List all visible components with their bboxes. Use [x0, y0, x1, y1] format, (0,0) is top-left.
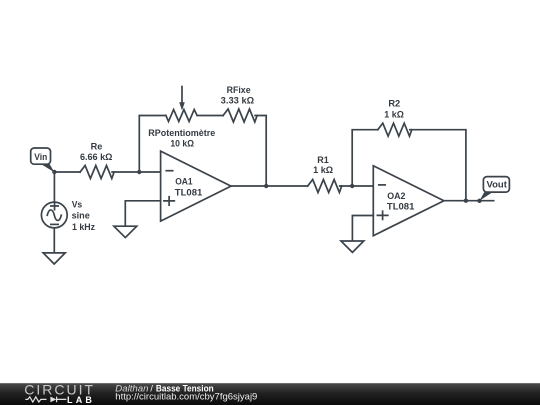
voltage source Vs — [41, 200, 95, 233]
wire R2 feedback loop — [352, 130, 378, 186]
svg-text:OA2: OA2 — [387, 191, 405, 202]
wire Vs to ground — [53, 228, 55, 253]
wire Vin node down to Vs — [53, 172, 55, 202]
wire OA2 non-inverting input to ground — [352, 216, 373, 242]
svg-text:1 kΩ: 1 kΩ — [313, 165, 333, 176]
wire OA1 non-inverting input to ground — [125, 201, 160, 226]
resistor R2 — [378, 99, 412, 137]
wire R1 to OA2 inverting input — [340, 185, 374, 187]
svg-text:Vout: Vout — [487, 180, 508, 191]
resistor R1 — [308, 155, 342, 193]
svg-text:http://circuitlab.com/cby7fg6s: http://circuitlab.com/cby7fg6sjyaj9 — [115, 392, 257, 403]
svg-text:Vin: Vin — [34, 152, 47, 163]
CircuitLab logo — [24, 382, 95, 405]
resistor Re — [80, 142, 114, 179]
ground (OA1 + input) — [114, 226, 137, 237]
wire Re to OA1 inverting input — [112, 171, 161, 173]
wire RFixe down to OA1 output node — [255, 116, 266, 187]
svg-text:TL081: TL081 — [387, 202, 415, 213]
svg-text:RPotentiomètre: RPotentiomètre — [148, 128, 215, 139]
svg-text:10 kΩ: 10 kΩ — [170, 139, 194, 150]
svg-text:sine: sine — [72, 211, 90, 222]
wire R2 down to output node — [410, 130, 466, 201]
node F (Vout tap) — [477, 199, 481, 203]
node A (Vin) — [52, 170, 56, 174]
svg-text:6.66 kΩ: 6.66 kΩ — [80, 152, 113, 163]
svg-text:OA1: OA1 — [175, 177, 193, 188]
net flag Vin — [31, 148, 55, 172]
node D (OA2 feedback tap) — [350, 184, 354, 188]
potentiometer RPotentiometre — [148, 87, 215, 150]
svg-text:R1: R1 — [317, 155, 329, 166]
wire OA1 output to R1 — [231, 185, 308, 187]
ground (OA2 + input) — [341, 241, 364, 252]
svg-text:TL081: TL081 — [175, 187, 203, 198]
wire node B up to potentiometer loop — [139, 116, 166, 173]
op-amp OA2 — [373, 166, 444, 236]
net flag Vout — [480, 177, 510, 201]
resistor RFixe — [221, 85, 257, 122]
node B (feedback tap) — [137, 170, 141, 174]
node E (R2 to output) — [464, 199, 468, 203]
wire Vin node to Re — [54, 171, 80, 173]
svg-text:3.33 kΩ: 3.33 kΩ — [221, 95, 255, 106]
svg-text:LAB: LAB — [67, 395, 92, 405]
ground (below Vs) — [43, 253, 65, 264]
svg-text:1 kΩ: 1 kΩ — [384, 109, 404, 120]
wire potentiometer to RFixe — [198, 115, 223, 117]
wire OA2 output — [444, 200, 494, 202]
op-amp OA1 — [161, 151, 231, 221]
svg-text:R2: R2 — [388, 99, 400, 110]
svg-text:Vs: Vs — [72, 200, 83, 211]
node C (OA1 output) — [264, 184, 268, 188]
svg-text:1 kHz: 1 kHz — [72, 222, 95, 233]
